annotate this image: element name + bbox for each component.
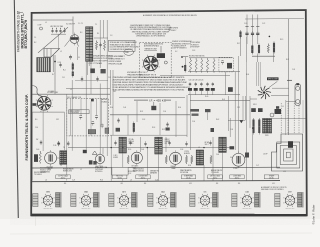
trimmer C2C bbox=[91, 122, 94, 124]
svg-text:R-9: R-9 bbox=[35, 119, 37, 121]
speaker socket label bbox=[267, 77, 279, 80]
wire verticals mid bbox=[110, 70, 112, 105]
capacitor C43 bbox=[200, 83, 202, 85]
loop capacitor bbox=[288, 141, 293, 148]
capacitor C8 bbox=[59, 64, 61, 66]
audio link bbox=[57, 157, 60, 159]
schematic border frame bbox=[31, 10, 307, 215]
capacitor C42 bbox=[195, 83, 197, 85]
headphone jack bbox=[295, 84, 301, 106]
svg-text:©John F. Rider: ©John F. Rider bbox=[311, 205, 315, 225]
bus y135.2 bbox=[110, 134, 187, 136]
socket pins dark bbox=[33, 103, 37, 106]
resistor R63 bbox=[252, 120, 254, 134]
svg-text:R-25: R-25 bbox=[286, 59, 289, 61]
capacitor C59 bbox=[40, 141, 42, 143]
svg-text:L-10: L-10 bbox=[283, 171, 286, 173]
svg-text:R-52: R-52 bbox=[140, 111, 143, 113]
wire top bus right bbox=[245, 18, 304, 21]
capacitor C63 bbox=[83, 150, 87, 153]
trimmer C2B bbox=[95, 116, 98, 118]
resistor R5 bbox=[72, 64, 74, 70]
antenna trimmers C1-C4 bbox=[51, 30, 53, 32]
svg-text:C-11: C-11 bbox=[62, 77, 65, 79]
pilot circle bbox=[164, 61, 167, 64]
trimmer C2D bbox=[101, 125, 104, 127]
resistor R6 bbox=[72, 72, 74, 77]
S-curve wire bbox=[32, 86, 43, 97]
svg-text:C-54: C-54 bbox=[163, 111, 166, 113]
resistor R70 bbox=[39, 151, 41, 164]
wire verticals bbox=[77, 47, 79, 60]
capacitor C45 bbox=[212, 83, 214, 85]
resistor R24 bbox=[273, 43, 275, 53]
resistor R56 bbox=[185, 155, 187, 164]
svg-text:R-30: R-30 bbox=[246, 74, 249, 76]
capacitor C50 bbox=[151, 106, 156, 110]
resistor R7 bbox=[90, 69, 95, 74]
resistor pack bbox=[227, 63, 232, 69]
wire diagonal antenna lead bbox=[38, 27, 68, 53]
output transformer T5 bbox=[60, 151, 63, 164]
wires bbox=[246, 35, 248, 44]
wire into sunburst bbox=[269, 81, 277, 87]
resistor R31 bbox=[189, 58, 191, 72]
wire top bus bbox=[33, 19, 73, 21]
IF transformer T3 bbox=[155, 137, 162, 154]
svg-text:C-15: C-15 bbox=[108, 77, 111, 79]
capacitor C6 bbox=[99, 44, 101, 46]
svg-text:C-58: C-58 bbox=[230, 129, 233, 131]
resistor R34 bbox=[206, 58, 208, 72]
tone blocks bbox=[251, 108, 256, 112]
resistor R20 bbox=[239, 32, 241, 38]
bus y114.8 bbox=[110, 114, 190, 116]
coil box L1 bbox=[37, 58, 51, 72]
capacitor C53 bbox=[166, 123, 168, 125]
svg-text:C-26: C-26 bbox=[292, 69, 295, 71]
junction bbox=[269, 36, 271, 38]
resistor R64 bbox=[258, 120, 260, 134]
resistor R35 bbox=[213, 58, 215, 72]
choke L5 bbox=[196, 150, 203, 165]
svg-text:C-63: C-63 bbox=[141, 149, 144, 151]
dashed candohm box bbox=[219, 57, 234, 72]
stage label CONV 6BE6 bbox=[230, 175, 244, 179]
resistor R22 bbox=[258, 45, 260, 53]
row resistors bbox=[127, 155, 129, 164]
dashed gang condenser bbox=[67, 99, 109, 136]
tube V6 bbox=[232, 153, 245, 166]
band tick bbox=[18, 11, 24, 13]
oscillator socket bbox=[37, 97, 51, 111]
capacitor C70 bbox=[245, 153, 249, 158]
dashed loop leads bbox=[280, 103, 282, 134]
wire y118.6 bbox=[272, 118, 306, 120]
wire antenna bus bbox=[51, 33, 66, 35]
resistor R36 bbox=[228, 87, 233, 92]
resistor R4 bbox=[103, 40, 105, 51]
svg-text:C-57: C-57 bbox=[237, 107, 240, 109]
svg-text:C-71: C-71 bbox=[256, 165, 259, 167]
wires down bbox=[224, 72, 226, 95]
junction bbox=[54, 61, 56, 63]
wire lead to V1 bbox=[72, 17, 74, 35]
svg-text:C-16: C-16 bbox=[35, 127, 38, 129]
tube V3 bbox=[131, 152, 142, 163]
ladder bus top bbox=[189, 57, 232, 59]
svg-text:R-3: R-3 bbox=[80, 32, 82, 34]
svg-text:C-1: C-1 bbox=[34, 37, 36, 39]
stage label RECT 6X5 bbox=[113, 175, 127, 179]
svg-text:V-1: V-1 bbox=[78, 57, 80, 59]
rotor plates bbox=[88, 130, 96, 134]
wire cap to horn bbox=[58, 35, 60, 49]
svg-text:OSC: OSC bbox=[56, 119, 59, 121]
capacitor C55 bbox=[211, 128, 215, 132]
capacitor C13 bbox=[81, 78, 83, 80]
resistor R61 bbox=[205, 109, 211, 112]
V1 cone bbox=[65, 35, 79, 47]
stage label IF AMP 6BA6 bbox=[181, 175, 195, 179]
IF transformer T1 bbox=[86, 27, 93, 62]
resistor R21 bbox=[251, 46, 253, 54]
stage label OUTPUT 6AQ5 bbox=[56, 175, 70, 179]
wires x225-252 bbox=[228, 96, 230, 131]
svg-text:R-2: R-2 bbox=[34, 42, 36, 44]
capacitor C14 bbox=[96, 78, 98, 80]
svg-text:V-2: V-2 bbox=[44, 109, 46, 111]
speaker socket sunburst bbox=[263, 91, 266, 94]
svg-text:R-54: R-54 bbox=[178, 107, 181, 109]
junction dots bbox=[147, 147, 148, 148]
jack lead bbox=[286, 101, 295, 103]
stage label CONVERTER bbox=[136, 175, 150, 179]
row verticals bbox=[71, 80, 73, 151]
svg-text:J-2: J-2 bbox=[80, 169, 82, 171]
capacitor C51 bbox=[117, 119, 119, 121]
socket keyway wedge bbox=[151, 58, 158, 64]
capacitor C61 bbox=[58, 142, 61, 144]
chassis rule bbox=[31, 181, 280, 182]
loop antenna outline bbox=[272, 134, 303, 171]
resistor R8 bbox=[101, 69, 106, 73]
resistor R10 bbox=[184, 65, 186, 71]
resistor R32 bbox=[195, 58, 197, 72]
stage label DET AVC 6AT6 bbox=[208, 175, 222, 179]
capacitor C41 bbox=[189, 83, 191, 85]
wire y88.5 bbox=[66, 88, 110, 90]
stage label RF AMP bbox=[264, 175, 278, 179]
rectifier blob bbox=[240, 120, 244, 123]
capacitor C60 bbox=[34, 154, 38, 162]
rectifier block bbox=[157, 53, 165, 58]
resistor R52 bbox=[133, 123, 135, 132]
resistor R23 bbox=[267, 44, 269, 54]
wires in gang box bbox=[70, 99, 72, 136]
svg-text:C-56: C-56 bbox=[192, 121, 195, 123]
capacitor C7 bbox=[69, 56, 72, 58]
capacitor C44 bbox=[206, 83, 208, 85]
resistor R3 bbox=[95, 41, 97, 51]
row caps bbox=[114, 142, 116, 144]
caps under V4 bbox=[89, 160, 93, 164]
capacitor C62 bbox=[67, 142, 70, 144]
svg-text:C-64: C-64 bbox=[216, 154, 219, 156]
wire bbox=[184, 57, 186, 65]
wire y80.5 bbox=[75, 80, 108, 82]
svg-text:T-5: T-5 bbox=[60, 165, 62, 167]
wires below socket bbox=[32, 111, 64, 113]
tube V2 bbox=[170, 152, 182, 164]
filter caps C20-22 bbox=[245, 32, 248, 34]
resistor R60 bbox=[191, 109, 200, 112]
T1 leads bbox=[87, 61, 89, 75]
wire grid bbox=[94, 37, 108, 39]
svg-text:L-2: L-2 bbox=[60, 51, 62, 53]
svg-text:R-7: R-7 bbox=[52, 74, 54, 76]
bus y75.3 bbox=[160, 74, 230, 76]
svg-text:C-49: C-49 bbox=[123, 107, 126, 109]
gang label box bbox=[69, 110, 89, 114]
tube V4 bbox=[95, 154, 104, 163]
row bus y147.6 bbox=[68, 147, 232, 149]
jack triangle bbox=[92, 151, 97, 155]
dial lamp oval bbox=[124, 49, 134, 55]
svg-text:C-5: C-5 bbox=[78, 23, 80, 25]
wire plate verticals bbox=[54, 55, 56, 94]
IF transformer T4 bbox=[219, 137, 226, 152]
svg-text:R-41: R-41 bbox=[222, 99, 225, 101]
right vertical wire bbox=[288, 19, 290, 135]
IF transformer T2 bbox=[119, 137, 126, 153]
bus y100.5 bbox=[190, 100, 250, 102]
trimmer C2A bbox=[79, 116, 82, 118]
svg-text:T-1: T-1 bbox=[95, 24, 97, 26]
bus bbox=[188, 94, 240, 96]
svg-text:R-57: R-57 bbox=[162, 129, 165, 131]
terminal circle bbox=[40, 27, 43, 30]
ladder bus bottom bbox=[188, 71, 240, 73]
wire x303 faint bbox=[302, 100, 304, 133]
formula IF 455KC bbox=[134, 99, 148, 101]
loop horn bbox=[44, 49, 60, 58]
tube V1 bbox=[70, 35, 79, 44]
junction dots right of box bbox=[181, 56, 183, 58]
boxed note B bbox=[109, 40, 136, 51]
pilot lamp bbox=[270, 113, 274, 117]
page edge rule bbox=[14, 0, 18, 218]
chassis rule upper bbox=[32, 166, 281, 169]
capacitor C31 bbox=[91, 99, 94, 102]
trimmer bbox=[221, 62, 224, 64]
tube V5 output bbox=[45, 152, 57, 164]
svg-text:R-58: R-58 bbox=[188, 165, 191, 167]
bus y94 bbox=[32, 93, 110, 95]
resistor R33 bbox=[201, 58, 203, 72]
resistor R51 bbox=[116, 128, 120, 132]
loop turns bbox=[277, 142, 300, 168]
svg-text:R-50: R-50 bbox=[110, 107, 113, 109]
capacitor C30 bbox=[57, 142, 59, 144]
socket S1 bbox=[144, 56, 158, 70]
power transformer bbox=[263, 119, 267, 134]
dashed box vibrator bbox=[140, 42, 172, 77]
